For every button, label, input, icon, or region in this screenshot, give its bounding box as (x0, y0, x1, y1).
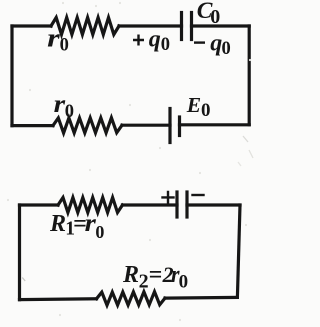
svg-text:R: R (49, 211, 66, 237)
svg-text:0: 0 (210, 6, 220, 28)
svg-text:0: 0 (179, 272, 189, 293)
svg-text:q: q (210, 30, 222, 56)
svg-text:0: 0 (65, 102, 74, 122)
svg-text:E: E (186, 93, 201, 117)
svg-text:0: 0 (222, 39, 231, 59)
svg-text:0: 0 (161, 35, 170, 55)
svg-text:0: 0 (95, 222, 104, 242)
svg-text:=: = (149, 262, 163, 288)
svg-text:0: 0 (201, 100, 211, 121)
svg-text:q: q (149, 26, 161, 52)
svg-text:0: 0 (60, 35, 69, 55)
svg-text:r: r (54, 91, 66, 118)
svg-text:2: 2 (139, 271, 149, 293)
svg-text:R: R (122, 262, 139, 288)
